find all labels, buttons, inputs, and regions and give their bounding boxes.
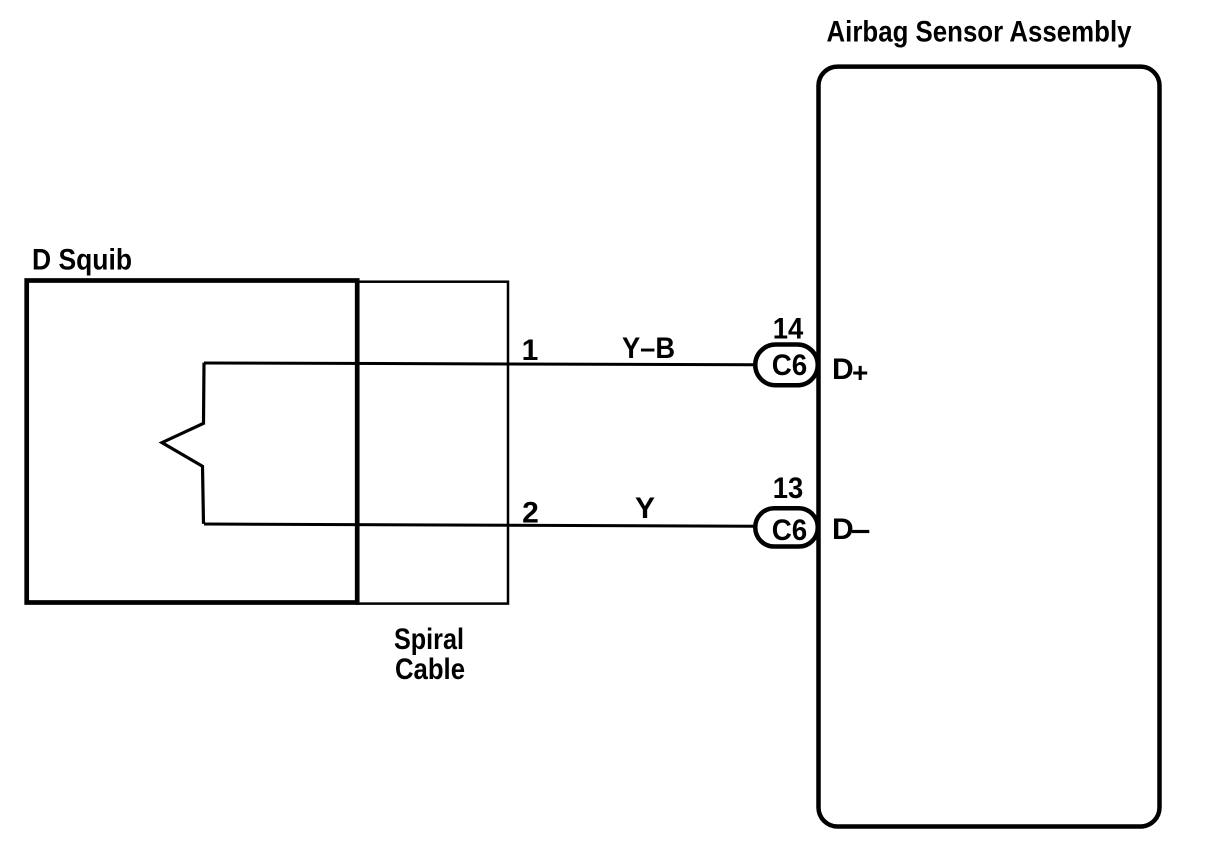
connector label C6 (lower) xyxy=(772,514,808,547)
svg-text:Spiral: Spiral xyxy=(394,623,464,656)
pin label 2 xyxy=(522,496,539,529)
svg-text:Cable: Cable xyxy=(395,653,465,686)
label: D Squib xyxy=(32,244,132,277)
D squib box xyxy=(27,281,358,603)
svg-text:C6: C6 xyxy=(772,514,808,547)
node label D- xyxy=(832,513,869,546)
wire 1 (Y-B) from squib pin 1 to C6 pin 14 xyxy=(204,363,755,365)
connector label C6 (upper) xyxy=(772,349,808,382)
svg-text:13: 13 xyxy=(773,472,804,505)
connector C6 oval (pin 14) xyxy=(755,345,818,386)
svg-text:14: 14 xyxy=(773,312,804,345)
D squib connector contact (notched shape) xyxy=(162,363,204,524)
wire 2 (Y) from squib pin 2 to C6 pin 13 xyxy=(204,524,755,526)
svg-text:C6: C6 xyxy=(772,349,808,382)
wire color label Y xyxy=(635,492,655,525)
connector C6 oval (pin 13) xyxy=(755,508,818,546)
node label D+ xyxy=(832,353,868,388)
svg-text:D: D xyxy=(832,353,854,386)
svg-text:2: 2 xyxy=(522,496,539,529)
svg-text:+: + xyxy=(852,357,868,388)
pin number 14 xyxy=(773,312,804,345)
svg-text:Airbag Sensor Assembly: Airbag Sensor Assembly xyxy=(827,16,1132,49)
label: Airbag Sensor Assembly (title) xyxy=(827,16,1132,49)
svg-text:D Squib: D Squib xyxy=(32,244,132,277)
wire color label Y-B xyxy=(622,332,675,365)
svg-text:1: 1 xyxy=(522,334,539,367)
airbag sensor assembly box U1 xyxy=(819,67,1160,827)
pin number 13 xyxy=(773,472,804,505)
svg-text:Y–B: Y–B xyxy=(622,332,675,365)
pin label 1 xyxy=(522,334,539,367)
label: Spiral Cable xyxy=(394,623,465,686)
svg-text:Y: Y xyxy=(635,492,655,525)
spiral cable box xyxy=(357,282,508,604)
svg-text:D: D xyxy=(832,513,854,546)
